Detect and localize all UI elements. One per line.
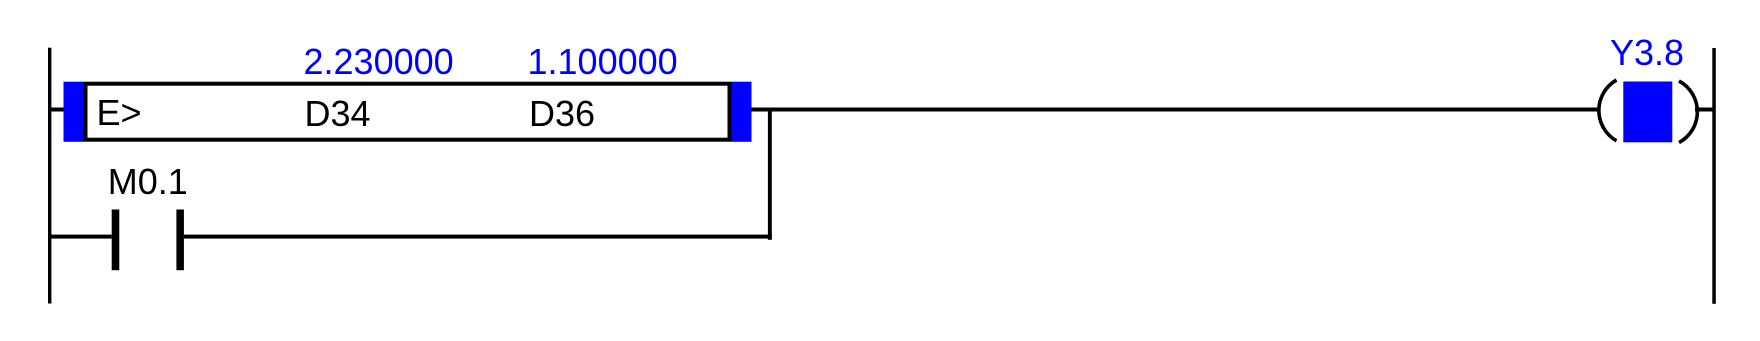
branch wire contact to junction xyxy=(184,235,772,239)
main rung wire block to coil xyxy=(752,108,1601,112)
junction vertical wire of parallel branch xyxy=(768,108,772,240)
svg-text:D34: D34 xyxy=(305,93,371,134)
wire left rail to compare block xyxy=(51,108,64,112)
svg-text:D36: D36 xyxy=(529,93,595,134)
wire coil to right rail xyxy=(1695,108,1713,112)
svg-text:Y3.8: Y3.8 xyxy=(1610,32,1684,73)
compare block U1 outline xyxy=(86,84,730,140)
compare block U1 left terminal cap xyxy=(64,82,84,142)
svg-text:2.230000: 2.230000 xyxy=(304,41,454,82)
svg-text:E>: E> xyxy=(97,92,142,133)
coil Y3.8 left parenthesis xyxy=(1599,80,1617,141)
coil Y3.8 right parenthesis xyxy=(1679,81,1697,143)
contact M0.1 right bar xyxy=(176,210,184,271)
svg-text:1.100000: 1.100000 xyxy=(528,41,678,82)
coil Y3.8 blue square xyxy=(1623,82,1672,143)
right power rail xyxy=(1712,48,1716,304)
svg-text:M0.1: M0.1 xyxy=(108,161,188,202)
contact M0.1 left bar xyxy=(112,210,120,271)
branch wire rail to contact xyxy=(51,235,112,239)
left power rail xyxy=(48,48,51,304)
compare block U1 right terminal cap xyxy=(732,82,752,142)
